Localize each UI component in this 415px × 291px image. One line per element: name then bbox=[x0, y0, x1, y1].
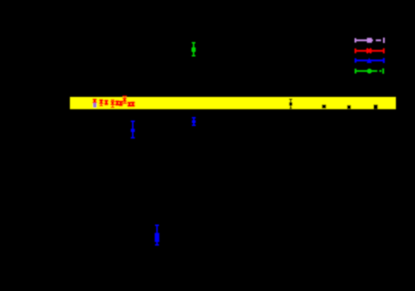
red point 5 bbox=[115, 101, 119, 105]
yellow band bbox=[70, 97, 396, 109]
black point 4 bbox=[374, 105, 378, 110]
red point 2 bbox=[99, 100, 103, 106]
red point 1 bbox=[93, 99, 97, 103]
red point 6 bbox=[119, 101, 123, 105]
red point 3 bbox=[105, 100, 109, 104]
green point bbox=[192, 43, 196, 56]
red point 4 bbox=[111, 100, 115, 107]
blue point 3 (two overlapping) bbox=[155, 225, 159, 245]
red point 9 bbox=[131, 102, 135, 106]
blue point 2 bbox=[192, 118, 196, 125]
purple point bbox=[93, 103, 96, 107]
red point 8 bbox=[128, 102, 132, 106]
legend row 1: purple dashed with square bbox=[355, 38, 384, 43]
blue point 1 bbox=[131, 121, 135, 138]
legend row 4: green dashed with circle bbox=[356, 68, 384, 73]
black point 3 bbox=[347, 105, 351, 109]
black point 2 bbox=[322, 105, 326, 109]
black point 1 with error bar bbox=[289, 99, 292, 108]
red point 7 bbox=[122, 96, 126, 103]
legend row 3: blue solid with triangle bbox=[356, 58, 384, 63]
legend row 2: red solid with X bbox=[355, 48, 383, 53]
